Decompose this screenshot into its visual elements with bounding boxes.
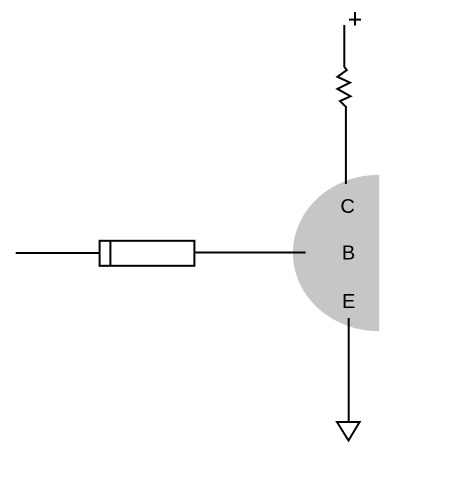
transistor Q1 body xyxy=(293,175,379,332)
svg-text:B: B xyxy=(342,243,355,265)
power supply + symbol xyxy=(349,12,361,26)
resistor R1 xyxy=(337,67,350,107)
wire from emitter to ground arrow xyxy=(348,318,350,422)
svg-text:C: C xyxy=(340,196,354,218)
component band line xyxy=(109,240,111,267)
wire from + to resistor xyxy=(343,25,345,67)
svg-text:E: E xyxy=(342,291,355,313)
base series component (boxed resistor) xyxy=(100,241,195,266)
ground arrow xyxy=(337,422,360,441)
wire from resistor to collector xyxy=(345,106,347,184)
wire from left edge to base component xyxy=(16,252,99,254)
wire from component to base xyxy=(195,252,305,254)
